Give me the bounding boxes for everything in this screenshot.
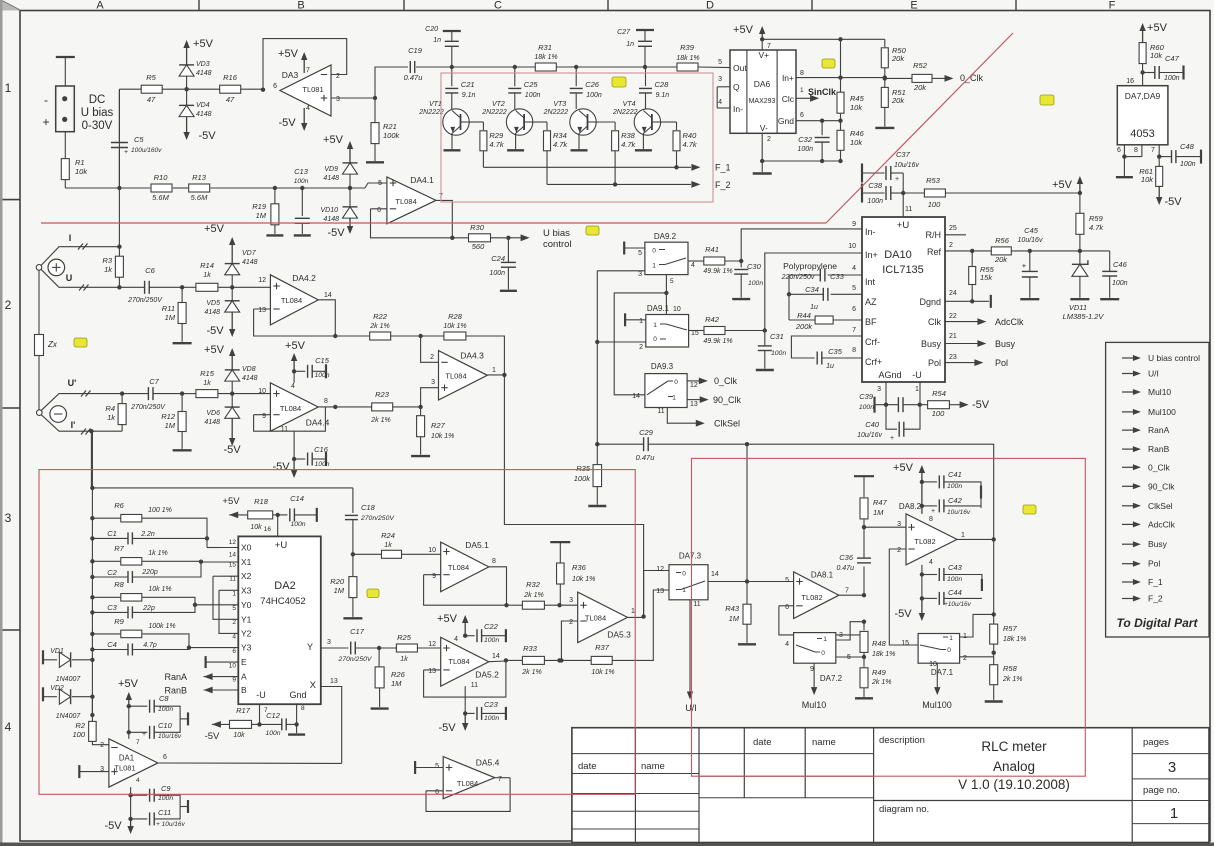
svg-text:4.7k: 4.7k bbox=[1089, 223, 1104, 232]
svg-text:4.7k: 4.7k bbox=[553, 140, 568, 149]
svg-text:R32: R32 bbox=[526, 580, 541, 589]
svg-text:C9: C9 bbox=[161, 784, 171, 793]
svg-text:R48: R48 bbox=[872, 639, 887, 648]
op-amp DA5.2 TL084 bbox=[441, 637, 489, 686]
wire I' bus to network bbox=[90, 486, 94, 490]
pin 3 AGnd wire bbox=[885, 382, 887, 405]
svg-text:+: + bbox=[890, 435, 894, 442]
resistor R16 bbox=[220, 85, 241, 93]
svg-text:100: 100 bbox=[72, 730, 85, 739]
svg-text:R36: R36 bbox=[572, 563, 587, 572]
wire DA4.2 feedback bbox=[254, 308, 271, 310]
svg-text:C6: C6 bbox=[145, 266, 155, 275]
svg-text:VT4: VT4 bbox=[623, 101, 636, 108]
svg-text:+5V: +5V bbox=[118, 678, 139, 690]
wire DA4.4 output bbox=[318, 406, 335, 408]
svg-text:Y: Y bbox=[307, 642, 313, 652]
svg-text:2N2222: 2N2222 bbox=[481, 109, 507, 116]
svg-text:R10: R10 bbox=[154, 173, 169, 182]
svg-text:control: control bbox=[543, 239, 572, 250]
svg-text:3: 3 bbox=[336, 96, 340, 103]
wire to DA9.3 bbox=[614, 293, 666, 395]
svg-text:2: 2 bbox=[963, 655, 967, 662]
svg-text:2: 2 bbox=[639, 344, 643, 351]
svg-text:100n: 100n bbox=[797, 146, 813, 153]
capacitor C15 bbox=[294, 370, 305, 372]
resistor R53 bbox=[903, 192, 925, 194]
svg-text:Dgnd: Dgnd bbox=[919, 297, 941, 307]
svg-text:1k: 1k bbox=[107, 413, 116, 422]
svg-text:R52: R52 bbox=[913, 61, 928, 70]
svg-text:R42: R42 bbox=[705, 315, 720, 324]
svg-text:TL084: TL084 bbox=[395, 197, 416, 206]
svg-text:ClkSel: ClkSel bbox=[1148, 501, 1173, 511]
svg-text:DA7.2: DA7.2 bbox=[820, 674, 843, 683]
diode VD9 bbox=[343, 163, 358, 174]
svg-text:1M: 1M bbox=[873, 508, 884, 517]
svg-text:1M: 1M bbox=[165, 421, 176, 430]
resistor R55 bbox=[971, 251, 973, 267]
resistor R1 bbox=[61, 159, 69, 180]
svg-text:diagram no.: diagram no. bbox=[879, 804, 929, 815]
svg-text:C8: C8 bbox=[159, 694, 169, 703]
svg-text:270n/250V: 270n/250V bbox=[338, 656, 373, 663]
svg-text:description: description bbox=[879, 735, 925, 746]
svg-text:21: 21 bbox=[949, 333, 957, 340]
svg-text:R12: R12 bbox=[161, 412, 176, 421]
IC DA7,DA9 4053 bbox=[1117, 86, 1168, 145]
svg-text:4.7p: 4.7p bbox=[143, 642, 157, 649]
svg-text:R58: R58 bbox=[1003, 664, 1018, 673]
terminal pin3 bbox=[78, 765, 80, 778]
diode VD2 bbox=[42, 687, 44, 701]
svg-text:10u/16v: 10u/16v bbox=[1018, 237, 1043, 244]
svg-text:C46: C46 bbox=[1113, 260, 1128, 269]
svg-text:1k: 1k bbox=[203, 272, 211, 279]
svg-text:R27: R27 bbox=[431, 421, 446, 430]
svg-text:4148: 4148 bbox=[242, 259, 258, 266]
resistor R34 4.7k bbox=[533, 121, 547, 123]
svg-text:-5V: -5V bbox=[1164, 196, 1182, 208]
svg-text:-5V: -5V bbox=[104, 820, 122, 832]
svg-text:R22: R22 bbox=[373, 312, 388, 321]
resistor R31 bbox=[535, 63, 556, 71]
svg-text:100n: 100n bbox=[586, 92, 602, 99]
svg-text:100n: 100n bbox=[314, 461, 329, 468]
capacitor C13 bbox=[301, 188, 303, 216]
ground bbox=[884, 107, 886, 126]
svg-text:100n: 100n bbox=[947, 483, 962, 490]
svg-text:DA8.2: DA8.2 bbox=[899, 502, 922, 511]
resistor R24 bbox=[351, 552, 355, 556]
svg-text:SinClk: SinClk bbox=[808, 87, 837, 97]
resistor R4 bbox=[120, 391, 124, 395]
svg-text:10: 10 bbox=[673, 306, 681, 313]
svg-text:C28: C28 bbox=[655, 80, 670, 89]
svg-text:12: 12 bbox=[690, 382, 698, 389]
svg-text:10k 1%: 10k 1% bbox=[443, 323, 466, 330]
wire node bbox=[117, 186, 121, 190]
svg-text:+: + bbox=[42, 115, 49, 129]
svg-text:ICL7135: ICL7135 bbox=[882, 264, 924, 276]
svg-text:C37: C37 bbox=[896, 150, 911, 159]
svg-text:DA4.3: DA4.3 bbox=[460, 351, 484, 361]
svg-text:8: 8 bbox=[800, 70, 804, 77]
svg-text:8: 8 bbox=[1134, 147, 1138, 154]
svg-text:X: X bbox=[310, 680, 317, 691]
wire DA5.2 feedback bbox=[424, 669, 441, 671]
capacitor C30 bbox=[740, 261, 742, 267]
signal RanA bbox=[1122, 429, 1136, 431]
svg-text:7: 7 bbox=[1151, 147, 1155, 154]
svg-text:VD2: VD2 bbox=[50, 685, 64, 692]
svg-text:7: 7 bbox=[767, 43, 771, 50]
svg-text:C29: C29 bbox=[639, 428, 654, 437]
arrow 0_Clk bbox=[687, 380, 701, 382]
svg-text:47: 47 bbox=[147, 95, 156, 104]
svg-text:+5V: +5V bbox=[437, 613, 458, 625]
resistor R30 bbox=[452, 237, 468, 239]
svg-text:V+: V+ bbox=[758, 50, 769, 60]
op-amp DA3 TL081 bbox=[280, 65, 331, 116]
arrow ClkSel bbox=[667, 408, 698, 424]
svg-text:C1: C1 bbox=[107, 529, 117, 538]
svg-text:100n: 100n bbox=[771, 350, 786, 357]
svg-text:100n: 100n bbox=[1164, 75, 1180, 82]
resistor R15 bbox=[182, 393, 196, 395]
svg-text:6: 6 bbox=[232, 648, 236, 655]
svg-text:DA2: DA2 bbox=[274, 580, 295, 592]
svg-text:4148: 4148 bbox=[204, 309, 220, 316]
svg-text:C38: C38 bbox=[868, 181, 883, 190]
wire bbox=[173, 187, 188, 189]
svg-text:R59: R59 bbox=[1089, 214, 1104, 223]
svg-text:C32: C32 bbox=[798, 135, 813, 144]
svg-text:100n: 100n bbox=[867, 198, 883, 205]
pin 8 In+ wire bbox=[796, 77, 885, 79]
signal Busy bbox=[1122, 543, 1136, 545]
title block bbox=[572, 728, 1209, 843]
svg-text:1: 1 bbox=[1170, 805, 1178, 822]
svg-text:AGnd: AGnd bbox=[878, 370, 901, 380]
+5V flag DA4.4 bbox=[293, 360, 295, 371]
svg-text:R39: R39 bbox=[680, 43, 695, 52]
diode VD5 bbox=[225, 301, 240, 312]
ground bbox=[515, 133, 517, 149]
svg-text:name: name bbox=[812, 737, 836, 748]
capacitor C20 bbox=[451, 47, 453, 67]
resistor R19 bbox=[271, 204, 279, 225]
svg-text:In+: In+ bbox=[865, 250, 878, 260]
svg-text:6: 6 bbox=[273, 83, 277, 90]
svg-text:R17: R17 bbox=[236, 706, 251, 715]
wire DA5.1 feedback bbox=[424, 574, 441, 576]
wire DA8.2 pin2 bbox=[889, 549, 918, 645]
resistor R35 bbox=[596, 444, 598, 464]
svg-text:R11: R11 bbox=[162, 304, 175, 313]
svg-text:BF: BF bbox=[865, 317, 877, 327]
svg-text:+5V: +5V bbox=[1052, 179, 1073, 191]
signal Pol bbox=[1122, 563, 1136, 565]
svg-text:F: F bbox=[1109, 0, 1116, 12]
svg-text:C20: C20 bbox=[425, 26, 438, 33]
svg-text:R8: R8 bbox=[114, 580, 124, 589]
svg-text:4.7k: 4.7k bbox=[683, 140, 698, 149]
svg-text:0.47u: 0.47u bbox=[636, 453, 656, 462]
wire DA3 output to node bbox=[331, 97, 375, 99]
svg-text:4148: 4148 bbox=[204, 419, 220, 426]
svg-text:U bias: U bias bbox=[543, 228, 570, 239]
svg-text:100k 1%: 100k 1% bbox=[148, 623, 175, 630]
svg-text:1: 1 bbox=[639, 318, 643, 325]
terminal I- input bbox=[37, 410, 43, 416]
terminal bbox=[180, 806, 187, 808]
wire DA3 feedback bbox=[261, 88, 265, 92]
pin 8 Gnd wire bbox=[296, 704, 298, 724]
analog switch DA9.1 bbox=[646, 315, 689, 348]
svg-text:C25: C25 bbox=[524, 80, 539, 89]
svg-text:C13: C13 bbox=[294, 167, 309, 176]
terminal E bbox=[205, 656, 207, 668]
svg-text:10u/16v: 10u/16v bbox=[158, 733, 182, 740]
svg-text:+: + bbox=[1022, 261, 1027, 270]
pin 7 wire bbox=[1158, 145, 1160, 166]
wire DA4.1 feedback bbox=[371, 208, 387, 210]
+5V flag bbox=[231, 244, 233, 264]
svg-text:10u/16v: 10u/16v bbox=[894, 162, 919, 169]
svg-text:DA9.3: DA9.3 bbox=[651, 362, 674, 371]
signal F_1 bbox=[1122, 581, 1136, 583]
resistor R23 bbox=[335, 406, 372, 408]
svg-text:X0: X0 bbox=[241, 543, 252, 553]
svg-text:16: 16 bbox=[264, 526, 272, 533]
arrow Busy bbox=[945, 343, 980, 345]
svg-text:8: 8 bbox=[852, 347, 856, 354]
resistor R13 bbox=[189, 184, 210, 192]
wire pin3 DA8.2 bbox=[864, 526, 906, 528]
svg-text:Busy: Busy bbox=[921, 339, 942, 349]
svg-text:11: 11 bbox=[471, 682, 478, 689]
svg-text:9.1n: 9.1n bbox=[462, 92, 476, 99]
capacitor C39 bbox=[873, 397, 875, 413]
wire DA5.3 pin2 bbox=[561, 621, 577, 660]
svg-text:Clk: Clk bbox=[928, 317, 941, 327]
svg-text:100n: 100n bbox=[265, 730, 280, 737]
svg-text:4: 4 bbox=[929, 559, 933, 566]
wire DA5.4 feedback bbox=[426, 790, 443, 792]
svg-text:100n: 100n bbox=[489, 270, 505, 277]
wire DA7.2 pin5 bbox=[836, 656, 864, 658]
svg-text:R44: R44 bbox=[797, 311, 811, 320]
svg-text:Zx: Zx bbox=[47, 340, 58, 349]
+5V flag bbox=[349, 148, 351, 163]
-5V flag bbox=[186, 117, 188, 133]
svg-text:C5: C5 bbox=[134, 135, 144, 144]
analog switch DA9.3 bbox=[645, 374, 687, 408]
svg-text:In+: In+ bbox=[782, 73, 794, 83]
svg-text:TL082: TL082 bbox=[801, 593, 822, 602]
svg-text:AZ: AZ bbox=[865, 297, 877, 307]
svg-text:10k: 10k bbox=[250, 524, 262, 531]
svg-text:C30: C30 bbox=[747, 262, 762, 271]
svg-text:6: 6 bbox=[435, 789, 439, 796]
svg-text:13: 13 bbox=[258, 307, 266, 314]
wire pin2 bbox=[92, 741, 109, 744]
capacitor C5 bbox=[118, 89, 120, 141]
svg-text:R21: R21 bbox=[383, 122, 397, 131]
transistor VT1 2N2222 bbox=[443, 109, 469, 135]
svg-text:+: + bbox=[931, 508, 935, 515]
svg-text:C35: C35 bbox=[828, 347, 843, 356]
svg-text:R3: R3 bbox=[102, 256, 112, 265]
svg-text:1: 1 bbox=[800, 87, 804, 94]
svg-text:C: C bbox=[494, 0, 502, 12]
svg-text:10k: 10k bbox=[1141, 175, 1154, 184]
svg-text:10k: 10k bbox=[75, 167, 88, 176]
svg-text:4: 4 bbox=[306, 105, 310, 112]
svg-text:4.7k: 4.7k bbox=[621, 140, 636, 149]
svg-text:4: 4 bbox=[232, 634, 236, 641]
svg-text:R49: R49 bbox=[872, 668, 887, 677]
capacitor C11 bbox=[131, 818, 148, 820]
capacitor C38 bbox=[861, 184, 863, 203]
capacitor C28 bbox=[645, 67, 647, 86]
svg-text:C19: C19 bbox=[408, 46, 423, 55]
svg-text:10: 10 bbox=[428, 547, 436, 554]
svg-text:4: 4 bbox=[852, 265, 856, 272]
svg-text:8: 8 bbox=[492, 558, 496, 565]
svg-text:3: 3 bbox=[1168, 759, 1176, 776]
svg-text:1: 1 bbox=[631, 608, 635, 615]
capacitor C47 bbox=[1143, 72, 1155, 74]
resistor R57 bbox=[993, 614, 995, 624]
svg-text:5: 5 bbox=[670, 278, 674, 285]
svg-text:C7: C7 bbox=[149, 377, 159, 386]
note icon bbox=[367, 589, 379, 598]
svg-text:22p: 22p bbox=[142, 605, 155, 612]
svg-text:3: 3 bbox=[327, 639, 331, 646]
svg-text:10k 1%: 10k 1% bbox=[591, 669, 614, 676]
svg-text:page no.: page no. bbox=[1143, 785, 1180, 796]
svg-text:1: 1 bbox=[949, 635, 953, 642]
pin R/H bbox=[945, 234, 966, 236]
wire DA7.2 pin3 bbox=[836, 622, 864, 640]
svg-text:Y1: Y1 bbox=[241, 614, 252, 624]
svg-text:15: 15 bbox=[901, 640, 909, 647]
resistor R52 bbox=[885, 77, 913, 79]
note icon bbox=[1023, 505, 1036, 514]
svg-text:Analog: Analog bbox=[993, 759, 1035, 774]
svg-text:E: E bbox=[910, 0, 917, 12]
-5V flag bbox=[231, 418, 233, 439]
svg-text:-5V: -5V bbox=[223, 444, 241, 456]
svg-text:+5V: +5V bbox=[893, 462, 914, 474]
svg-text:3: 3 bbox=[877, 386, 881, 393]
capacitor C10 bbox=[129, 731, 148, 733]
resistor R29 4.7k bbox=[469, 121, 483, 123]
resistor R39 bbox=[677, 63, 698, 71]
signal U/I bbox=[1122, 373, 1136, 375]
svg-text:2k 1%: 2k 1% bbox=[523, 592, 543, 599]
op-amp DA4.2 TL084 bbox=[270, 275, 318, 325]
svg-text:R56: R56 bbox=[995, 236, 1010, 245]
svg-text:R1: R1 bbox=[75, 158, 85, 167]
svg-text:C44: C44 bbox=[948, 588, 962, 597]
svg-text:2k 1%: 2k 1% bbox=[369, 323, 389, 330]
resistor network R8 C3 bbox=[90, 595, 94, 599]
svg-text:C2: C2 bbox=[107, 568, 117, 577]
svg-text:25: 25 bbox=[949, 225, 957, 232]
svg-text:10u/16v: 10u/16v bbox=[947, 509, 971, 516]
svg-text:R13: R13 bbox=[192, 173, 207, 182]
diode VD3 bbox=[179, 65, 194, 76]
svg-text:9: 9 bbox=[852, 221, 856, 228]
svg-text:DA5.2: DA5.2 bbox=[475, 670, 499, 680]
resistor R42 bbox=[689, 330, 704, 332]
svg-text:-U: -U bbox=[256, 690, 266, 700]
-5V flag DA4.4 bbox=[293, 459, 295, 471]
svg-text:-5V: -5V bbox=[894, 608, 912, 620]
wire R42 to In+ bbox=[725, 330, 765, 332]
svg-text:C22: C22 bbox=[484, 622, 499, 631]
svg-text:3: 3 bbox=[569, 597, 573, 604]
wire bbox=[64, 132, 66, 159]
svg-text:220p: 220p bbox=[141, 569, 158, 576]
svg-text:R26: R26 bbox=[391, 670, 406, 679]
svg-text:4: 4 bbox=[785, 641, 789, 648]
ground bbox=[296, 724, 298, 733]
resistor network R9 C4 bbox=[90, 632, 94, 636]
wire output up to DA7.3 pin12 bbox=[644, 571, 669, 617]
+5V flag DA8.2 bbox=[921, 472, 923, 514]
svg-text:R37: R37 bbox=[595, 643, 610, 652]
svg-text:pages: pages bbox=[1143, 737, 1169, 748]
svg-text:11: 11 bbox=[657, 408, 664, 415]
capacitor C40 bbox=[886, 405, 897, 430]
svg-text:R19: R19 bbox=[252, 202, 267, 211]
svg-text:C10: C10 bbox=[158, 721, 173, 730]
svg-text:0_Clk: 0_Clk bbox=[714, 376, 738, 386]
resistor R26 bbox=[377, 646, 381, 650]
resistor R21 bbox=[374, 98, 376, 122]
pin 1 SinClk arrow bbox=[796, 97, 813, 99]
diode VD11 LM385 bbox=[1079, 251, 1081, 264]
-5V flag bbox=[231, 312, 233, 330]
svg-text:1k: 1k bbox=[104, 265, 113, 274]
wire DA7.1 pin1 bbox=[960, 614, 994, 637]
svg-text:R47: R47 bbox=[873, 498, 888, 507]
svg-text:14: 14 bbox=[492, 653, 500, 660]
svg-text:C47: C47 bbox=[1165, 54, 1180, 63]
svg-text:TL084: TL084 bbox=[445, 372, 466, 381]
wire DA8.1 output bbox=[839, 594, 864, 596]
svg-text:1: 1 bbox=[5, 81, 12, 95]
svg-text:0: 0 bbox=[682, 571, 686, 578]
wire bbox=[162, 88, 220, 90]
capacitor C44 bbox=[922, 597, 937, 599]
pin 3 Q loop bbox=[717, 86, 730, 88]
svg-text:R33: R33 bbox=[523, 644, 538, 653]
svg-text:1k 1%: 1k 1% bbox=[148, 550, 167, 557]
resistor R56 bbox=[972, 250, 991, 252]
capacitor C14 bbox=[278, 514, 288, 516]
resistor R50 bbox=[881, 48, 888, 68]
svg-text:RanA: RanA bbox=[164, 672, 187, 682]
svg-text:+5V: +5V bbox=[733, 24, 754, 36]
wire F_1 bus bbox=[482, 151, 484, 168]
svg-text:C4: C4 bbox=[107, 640, 117, 649]
connector X1 DC U bias bbox=[56, 56, 75, 58]
